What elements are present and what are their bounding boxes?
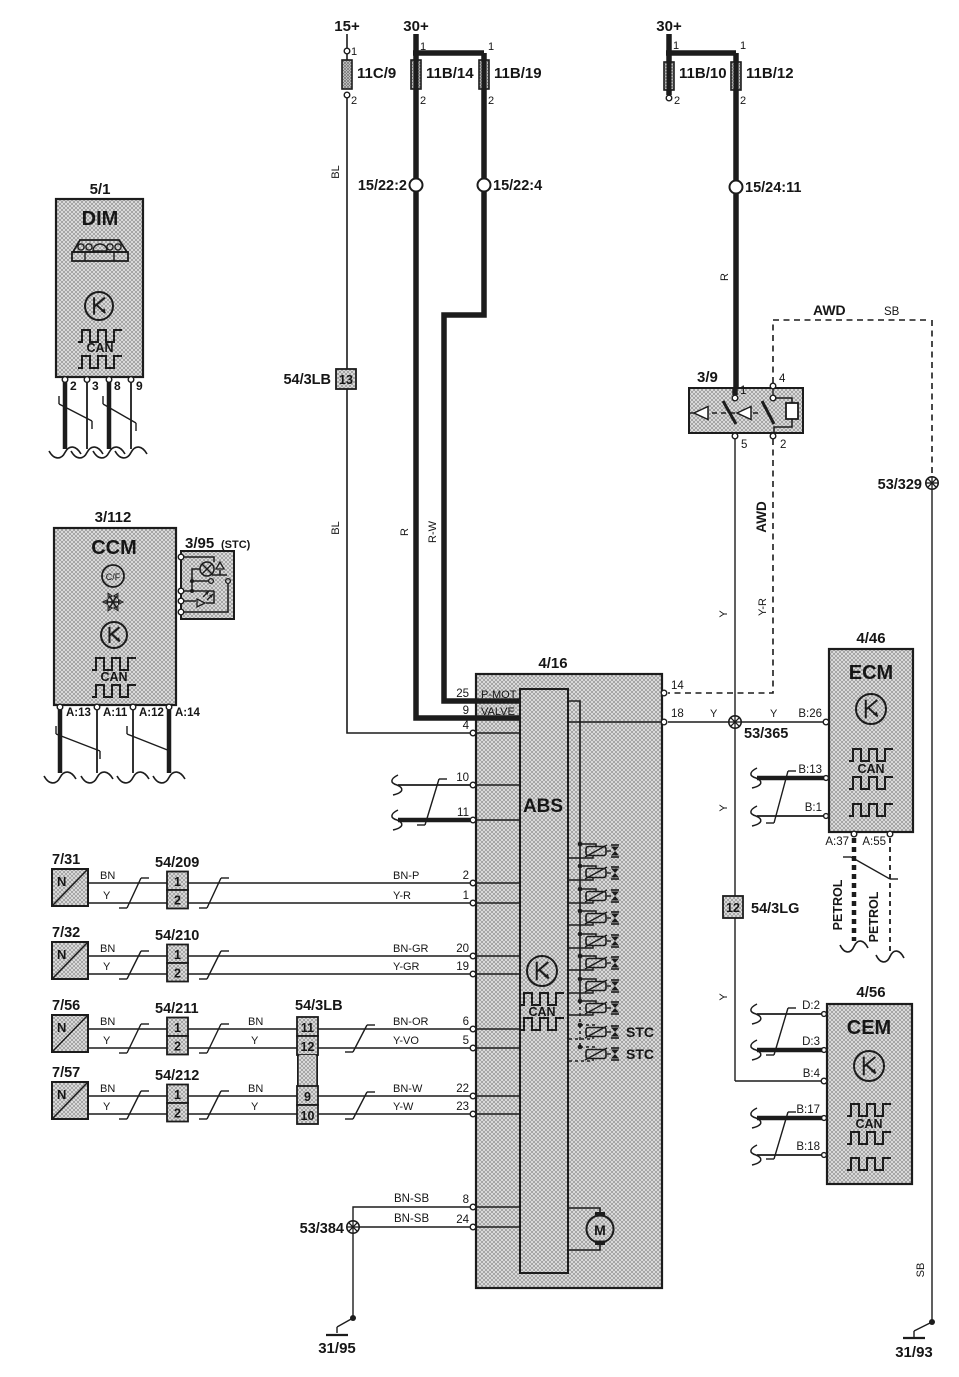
DIM pin 8 — [106, 377, 112, 383]
svg-text:A:55: A:55 — [862, 836, 886, 848]
ECM pin B:26 — [823, 719, 829, 725]
svg-text:2: 2 — [463, 870, 469, 882]
3/95 connector pins — [178, 554, 184, 560]
ABS valve solenoid 7 — [578, 977, 583, 982]
svg-text:AWD: AWD — [813, 302, 846, 318]
ABS valve solenoid 4 — [578, 909, 583, 914]
ABS pin 5 — [470, 1045, 476, 1051]
svg-text:BN-P: BN-P — [393, 870, 419, 882]
twisted pair mark 54/211 b — [207, 1024, 221, 1053]
ECM CAN symbol — [849, 749, 893, 761]
svg-text:5: 5 — [741, 439, 747, 451]
svg-text:15/24:11: 15/24:11 — [745, 180, 801, 196]
wire R from fuse 11B/12 to connector 15/24:11 — [733, 90, 739, 181]
svg-text:CAN: CAN — [528, 1005, 555, 1019]
svg-text:R: R — [719, 273, 731, 281]
wire R from 15/22:2 to ABS pin 9 VALVE — [416, 191, 521, 718]
svg-text:2: 2 — [174, 894, 181, 908]
svg-text:BN-SB: BN-SB — [394, 1193, 429, 1205]
node 1 branch to fuses 11B/10 11B/12 — [666, 50, 736, 56]
node 1 branch 30+ to both fuses — [413, 50, 484, 56]
svg-text:13: 13 — [339, 373, 353, 387]
svg-text:3/9: 3/9 — [697, 369, 718, 386]
svg-text:PETROL: PETROL — [867, 891, 881, 942]
wire DIM pin 8 — [107, 382, 112, 449]
wire CAN to CEM D:3 — [751, 1040, 761, 1060]
wire PETROL dashed thick from A:37 — [852, 838, 857, 941]
ABS pin 8 — [470, 1204, 476, 1210]
svg-text:STC: STC — [626, 1046, 654, 1062]
svg-text:A:11: A:11 — [103, 707, 128, 719]
svg-text:Y: Y — [251, 1035, 259, 1047]
svg-text:4: 4 — [463, 720, 470, 732]
svg-text:30+: 30+ — [656, 18, 682, 35]
twisted pair mark DIM 2-3 — [59, 404, 92, 421]
wire CAN to ECM B:13 — [751, 768, 761, 788]
svg-text:54/3LB: 54/3LB — [295, 998, 343, 1014]
DIM dashboard icon — [73, 240, 127, 252]
svg-text:D:3: D:3 — [802, 1036, 820, 1048]
svg-text:B:13: B:13 — [798, 764, 822, 776]
svg-text:5/1: 5/1 — [90, 181, 111, 198]
fuse 11C/9 — [342, 60, 352, 89]
fuse 11B/19 — [481, 53, 487, 60]
connector 12 54/3LG — [723, 896, 743, 918]
svg-text:10: 10 — [301, 1109, 315, 1123]
wire SB dashed down to splice 53/329 — [931, 320, 933, 477]
ABS pin 20 — [470, 953, 476, 959]
DIM pin 2 — [62, 377, 68, 383]
CEM lower wave symbol — [847, 1158, 891, 1170]
twisted pair mark 54/3LB upper — [353, 1025, 367, 1052]
svg-text:Y: Y — [770, 708, 778, 720]
wire BN-SB from ABS pin 24 to splice 53/384 — [359, 1226, 470, 1228]
ABS CAN symbol — [520, 993, 564, 1005]
svg-text:1: 1 — [740, 385, 746, 397]
svg-text:31/93: 31/93 — [895, 1344, 933, 1361]
svg-text:A:37: A:37 — [825, 836, 849, 848]
CEM CAN symbol — [847, 1104, 891, 1116]
svg-text:B:17: B:17 — [796, 1104, 820, 1116]
wire R-W from fuse 11B/19 to connector 15/22:4 — [481, 89, 487, 179]
svg-text:1: 1 — [174, 948, 181, 962]
wire BN from 7/56 — [88, 1028, 470, 1030]
twisted pair mark 54/3LB lower — [353, 1092, 367, 1119]
svg-text:2: 2 — [174, 1107, 181, 1121]
wire 30+ vertical feed — [413, 34, 419, 60]
svg-text:DIM: DIM — [82, 208, 119, 230]
svg-text:12: 12 — [726, 901, 740, 915]
svg-text:22: 22 — [456, 1083, 469, 1095]
ABS STC valve solenoid 2 — [578, 1045, 583, 1050]
ABS pin 18 — [661, 719, 667, 725]
connector 15/24:11 — [730, 181, 743, 194]
svg-text:R-W: R-W — [427, 520, 439, 543]
wire CCM pin A:13 — [58, 710, 63, 773]
3/95 internal wiring — [190, 589, 194, 593]
svg-text:2: 2 — [351, 95, 357, 107]
svg-text:53/365: 53/365 — [744, 726, 788, 742]
relay actuation dashes and valve triangles — [690, 412, 695, 414]
ABS inner controller box — [520, 689, 568, 1273]
ABS internal valve supply bus — [569, 701, 580, 1001]
svg-text:BL: BL — [330, 521, 342, 534]
svg-text:4/46: 4/46 — [856, 630, 885, 647]
svg-text:1: 1 — [174, 875, 181, 889]
svg-text:BN: BN — [100, 943, 115, 955]
3/95 trigger arrow — [212, 574, 227, 576]
svg-text:54/211: 54/211 — [155, 1001, 199, 1017]
svg-text:24: 24 — [456, 1214, 469, 1226]
wire Y from 7/31 — [88, 902, 470, 904]
twisted pair mark 7/56 a — [127, 1024, 141, 1053]
wire AWD Y-R dashed from relay pin 2 to ABS pin 14 — [668, 439, 773, 693]
relay switch contact 1 — [723, 401, 736, 424]
svg-text:ECM: ECM — [849, 662, 893, 684]
svg-text:11B/10: 11B/10 — [679, 65, 727, 82]
ABS pin 2 — [470, 880, 476, 886]
svg-text:11B/12: 11B/12 — [746, 65, 794, 82]
svg-text:2: 2 — [174, 1040, 181, 1054]
svg-text:19: 19 — [456, 961, 469, 973]
svg-text:Y: Y — [251, 1101, 259, 1113]
relay pin 4 — [770, 383, 776, 389]
wire to CEM D:2 — [751, 1004, 761, 1024]
wire DIM pin 2 — [63, 382, 68, 449]
twisted pair mark DIM 8-9 — [103, 404, 136, 423]
twisted pair mark ABS 10-11 — [425, 779, 439, 825]
svg-text:SB: SB — [884, 306, 900, 318]
svg-text:9: 9 — [136, 379, 143, 393]
splice 53/329 — [926, 477, 938, 489]
wire CAN to ECM B:1 — [751, 806, 761, 826]
svg-text:BN-GR: BN-GR — [393, 943, 429, 955]
svg-text:CEM: CEM — [847, 1017, 891, 1039]
ABS pin 24 — [470, 1224, 476, 1230]
wire DIM pin 9 — [130, 382, 132, 449]
svg-text:P-MOT: P-MOT — [481, 689, 517, 701]
wire R inside ABS to pin 9 — [476, 715, 521, 721]
svg-text:BN: BN — [248, 1083, 263, 1095]
connector 15/22:2 — [410, 179, 423, 192]
wire 30+ vertical feed right — [666, 34, 672, 62]
ABS pin 14 — [661, 690, 667, 696]
svg-text:12: 12 — [301, 1040, 315, 1054]
svg-text:53/329: 53/329 — [878, 477, 922, 493]
svg-text:2: 2 — [780, 439, 786, 451]
wire BN from 7/31 — [88, 882, 470, 884]
wire Y from 7/32 — [88, 973, 470, 975]
ABS pin 22 — [470, 1093, 476, 1099]
twisted pair mark 54/212 b — [207, 1091, 221, 1119]
svg-text:Y-W: Y-W — [393, 1101, 414, 1113]
svg-text:Y: Y — [103, 890, 111, 902]
svg-text:23: 23 — [456, 1101, 469, 1113]
CCM snowflake icon — [113, 601, 121, 603]
svg-text:11C/9: 11C/9 — [357, 65, 396, 82]
fuse 11B/12 — [733, 53, 739, 62]
CCM clock icon — [101, 622, 127, 648]
svg-text:Y: Y — [103, 1035, 111, 1047]
ABS pin 19 — [470, 971, 476, 977]
CCM CAN symbol — [92, 658, 136, 670]
ABS valve solenoid 1 — [578, 842, 583, 847]
svg-text:1: 1 — [673, 40, 679, 52]
svg-text:N: N — [57, 947, 66, 962]
wire CAN to ABS pin 10 — [392, 775, 402, 795]
svg-text:2: 2 — [420, 95, 426, 107]
svg-text:30+: 30+ — [403, 18, 429, 35]
wire CCM pin A:12 — [132, 710, 134, 773]
splice 53/365 — [729, 716, 741, 728]
svg-text:7/32: 7/32 — [52, 925, 80, 941]
svg-text:AWD: AWD — [754, 501, 769, 533]
svg-text:1: 1 — [420, 41, 426, 53]
wire R from 15/24:11 to relay 3/9 pin 1 — [733, 193, 739, 397]
twisted pair mark CCM A:12-A:14 — [127, 734, 170, 751]
svg-text:C/F: C/F — [106, 572, 121, 582]
svg-text:11: 11 — [457, 807, 469, 819]
ABS valve solenoid 8 — [578, 999, 583, 1004]
svg-text:A:13: A:13 — [66, 707, 91, 719]
wire PETROL dashed from A:55 — [889, 838, 891, 951]
svg-text:M: M — [594, 1222, 606, 1238]
svg-text:VALVE: VALVE — [481, 706, 515, 718]
ground 31/93 — [929, 1319, 935, 1325]
ABS clock icon — [527, 956, 557, 986]
pin 2 of fuse 11B/10 — [666, 90, 672, 95]
DIM CAN symbol — [78, 330, 122, 342]
svg-text:B:1: B:1 — [805, 802, 822, 814]
twisted pair mark CEM B:17-B:18 — [774, 1112, 788, 1159]
svg-text:Y-R: Y-R — [393, 890, 411, 902]
CCM pin A:12 — [130, 704, 136, 710]
svg-text:20: 20 — [456, 943, 469, 955]
wire BN-SB from ABS pin 8 to splice 53/384 — [353, 1207, 470, 1221]
svg-text:SB: SB — [915, 1263, 927, 1278]
svg-text:11B/14: 11B/14 — [426, 65, 474, 82]
svg-text:1: 1 — [174, 1021, 181, 1035]
svg-text:2: 2 — [70, 379, 77, 393]
fuse 11B/10 — [664, 62, 674, 90]
connector 54/3LB cells 9 10 — [297, 1086, 318, 1105]
svg-text:54/212: 54/212 — [155, 1068, 199, 1084]
connector 15/22:4 — [478, 179, 491, 192]
svg-text:9: 9 — [304, 1090, 311, 1104]
svg-text:4: 4 — [779, 373, 786, 385]
twisted pair mark 54/210 b — [207, 951, 221, 979]
twisted pair mark CEM D:2-D:3 — [774, 1008, 788, 1055]
svg-text:4/16: 4/16 — [538, 655, 567, 672]
twisted pair mark 54/209 b — [207, 878, 221, 908]
wire CCM pin A:11 — [96, 710, 98, 773]
svg-text:CAN: CAN — [100, 670, 127, 684]
ABS pump motor M — [569, 1208, 600, 1213]
svg-text:15/22:4: 15/22:4 — [493, 178, 542, 194]
svg-text:15/22:2: 15/22:2 — [358, 178, 407, 194]
svg-text:10: 10 — [456, 772, 469, 784]
wire AWD dashed from relay pin 4 up and right — [773, 320, 926, 383]
pin 2 of fuse 11C/9 — [344, 92, 350, 98]
svg-text:B:4: B:4 — [803, 1068, 821, 1080]
ECM pin A:55 — [887, 831, 893, 837]
svg-text:11: 11 — [301, 1021, 314, 1035]
svg-text:9: 9 — [463, 705, 469, 717]
relay switch contact 2 — [762, 401, 774, 424]
svg-text:Y-GR: Y-GR — [393, 961, 420, 973]
wire CAN to ABS pin 11 — [392, 810, 402, 830]
3/95 switch contacts — [190, 579, 194, 583]
svg-text:BN-W: BN-W — [393, 1083, 423, 1095]
svg-text:7/56: 7/56 — [52, 998, 80, 1014]
ECM clock icon — [856, 694, 886, 724]
svg-text:BN-OR: BN-OR — [393, 1016, 429, 1028]
svg-text:8: 8 — [463, 1194, 469, 1206]
svg-text:Y-R: Y-R — [757, 598, 769, 616]
wire DIM pin 3 — [86, 382, 88, 449]
svg-text:BN: BN — [100, 1016, 115, 1028]
svg-text:8: 8 — [114, 379, 121, 393]
pin 1 of fuse 11C/9 — [344, 48, 350, 54]
CCM pin A:11 — [94, 704, 100, 710]
ABS valve solenoid 3 — [578, 887, 583, 892]
svg-text:2: 2 — [174, 967, 181, 981]
ABS pin 1 — [470, 900, 476, 906]
ABS valve solenoid 6 — [578, 954, 583, 959]
svg-text:Y: Y — [103, 961, 111, 973]
svg-text:BN: BN — [100, 1083, 115, 1095]
svg-text:18: 18 — [671, 708, 684, 720]
svg-text:Y: Y — [710, 708, 718, 720]
svg-text:54/210: 54/210 — [155, 928, 199, 944]
wire R-W inside ABS to pin 25 — [476, 698, 521, 704]
svg-text:2: 2 — [674, 95, 680, 107]
svg-text:STC: STC — [626, 1024, 654, 1040]
svg-text:3/112: 3/112 — [95, 509, 132, 526]
svg-text:BL: BL — [330, 165, 342, 178]
svg-text:Y: Y — [718, 993, 730, 1001]
ABS STC valve solenoid 1 — [578, 1023, 583, 1028]
ABS valve solenoid 2 — [578, 864, 583, 869]
ECM lower wave symbol — [849, 804, 893, 816]
svg-text:11B/19: 11B/19 — [494, 65, 542, 82]
svg-text:1: 1 — [740, 40, 746, 52]
svg-text:R: R — [399, 528, 411, 536]
ABS pin 10 — [470, 782, 476, 788]
svg-text:54/209: 54/209 — [155, 855, 199, 871]
twisted pair mark 7/31 a — [127, 878, 141, 908]
svg-text:54/3LG: 54/3LG — [751, 901, 799, 917]
svg-text:Y: Y — [718, 610, 730, 618]
svg-text:CAN: CAN — [857, 762, 884, 776]
relay coil — [776, 398, 792, 403]
wire Y from 7/56 — [88, 1047, 470, 1049]
svg-text:CAN: CAN — [855, 1117, 882, 1131]
ABS internal wire pin 18 — [568, 721, 661, 723]
DIM clock icon — [85, 292, 113, 320]
svg-text:7/57: 7/57 — [52, 1065, 80, 1081]
svg-text:(STC): (STC) — [221, 539, 251, 551]
relay pin 1 — [732, 388, 738, 395]
svg-text:1: 1 — [351, 46, 357, 58]
wire BN from 7/57 — [88, 1095, 470, 1097]
CCM C/F icon — [102, 565, 124, 587]
svg-text:BN-SB: BN-SB — [394, 1213, 429, 1225]
twisted pair mark PETROL — [843, 856, 851, 858]
CCM pin A:13 — [57, 704, 63, 710]
CCM pin A:14 — [166, 704, 172, 710]
svg-text:2: 2 — [488, 95, 494, 107]
wire Y from 7/57 — [88, 1113, 470, 1115]
svg-text:6: 6 — [463, 1016, 469, 1028]
svg-text:BN: BN — [248, 1016, 263, 1028]
svg-text:1: 1 — [463, 890, 469, 902]
wire SB from splice 53/329 down to ground — [931, 489, 933, 1322]
svg-text:1: 1 — [488, 41, 494, 53]
connector 54/3LB strip — [299, 1055, 316, 1086]
svg-text:31/95: 31/95 — [318, 1340, 356, 1357]
relay pin 5 — [732, 433, 738, 439]
svg-text:53/384: 53/384 — [300, 1221, 344, 1237]
svg-text:Y-VO: Y-VO — [393, 1035, 419, 1047]
svg-text:54/3LB: 54/3LB — [283, 372, 331, 388]
svg-text:N: N — [57, 1087, 66, 1102]
CEM pin B:4 — [821, 1078, 827, 1084]
fuse 11B/14 — [411, 60, 421, 89]
svg-text:A:12: A:12 — [139, 707, 164, 719]
wire CAN to CEM B:17 — [751, 1108, 761, 1128]
wire to CEM B:18 — [751, 1145, 761, 1165]
3/95 lamp — [183, 557, 214, 562]
splice 53/384 — [347, 1221, 359, 1233]
svg-text:A:14: A:14 — [175, 707, 201, 719]
svg-text:14: 14 — [671, 680, 684, 692]
twisted pair mark 7/32 a — [127, 951, 141, 979]
svg-text:ABS: ABS — [523, 796, 563, 817]
svg-text:15+: 15+ — [334, 18, 360, 35]
svg-text:7/31: 7/31 — [52, 852, 80, 868]
ABS valve solenoid 5 — [578, 932, 583, 937]
ECM pin A:37 — [851, 831, 857, 837]
svg-text:CCM: CCM — [91, 537, 137, 559]
svg-text:5: 5 — [463, 1035, 469, 1047]
svg-text:3/95: 3/95 — [185, 535, 214, 552]
twisted pair mark 7/57 a — [127, 1091, 141, 1119]
svg-text:BN: BN — [100, 870, 115, 882]
wire Y from ABS pin 18 to ECM B:26 — [668, 721, 823, 723]
svg-text:Y: Y — [103, 1101, 111, 1113]
svg-text:N: N — [57, 1020, 66, 1035]
wire from splice 53/384 to ground 31/95 — [352, 1233, 354, 1318]
ABS pin 23 — [470, 1111, 476, 1117]
svg-text:B:26: B:26 — [798, 708, 822, 720]
wire R from fuse 11B/14 to connector 15/22:2 — [413, 89, 419, 179]
twisted pair mark CCM A:13-A:11 — [56, 734, 100, 751]
svg-text:2: 2 — [740, 95, 746, 107]
DIM pin 3 — [84, 377, 90, 383]
relay pin 2 — [770, 433, 776, 439]
svg-text:CAN: CAN — [86, 341, 113, 355]
wire BN from 7/32 — [88, 955, 470, 957]
svg-text:N: N — [57, 874, 66, 889]
svg-text:25: 25 — [456, 688, 469, 700]
ground 31/95 — [350, 1315, 356, 1321]
DIM pin 9 — [128, 377, 134, 383]
wire CCM pin A:14 — [167, 710, 172, 773]
svg-text:Y: Y — [718, 804, 730, 812]
CEM clock icon — [854, 1051, 884, 1081]
svg-text:4/56: 4/56 — [856, 984, 885, 1001]
